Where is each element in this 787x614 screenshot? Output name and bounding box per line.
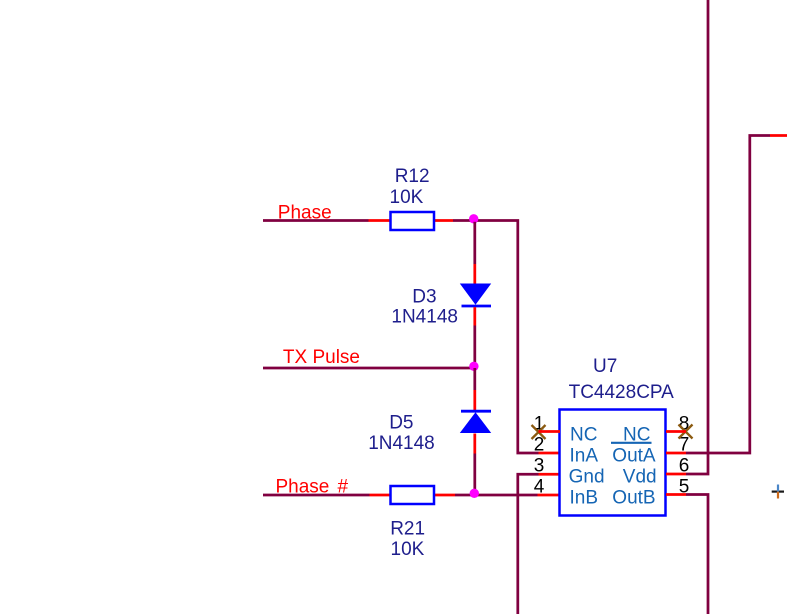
diode D3 cathode bar — [462, 305, 492, 308]
svg-text:D3: D3 — [412, 286, 436, 307]
svg-text:Vdd: Vdd — [623, 467, 657, 488]
svg-text:1N4148: 1N4148 — [391, 306, 458, 327]
svg-text:Gnd: Gnd — [569, 467, 605, 488]
resistor R21 pin 1 (left, red) — [370, 494, 391, 497]
junction node C (Phase #/R21/D5) — [470, 489, 479, 498]
resistor R21 — [391, 486, 435, 504]
svg-text:NC: NC — [570, 425, 597, 446]
resistor R12 pin 2 (right, red) — [434, 219, 453, 222]
svg-text:InA: InA — [570, 446, 599, 467]
svg-text:4: 4 — [534, 477, 545, 498]
svg-text:TC4428CPA: TC4428CPA — [569, 382, 675, 403]
U7 pin 3 stub (red) — [539, 473, 561, 476]
svg-text:OutB: OutB — [612, 488, 655, 509]
plus polarity mark vertical stroke (blue top) — [777, 485, 779, 492]
wire node A down to D3 anode — [473, 222, 476, 264]
off-page pin stub at top right (red) — [770, 134, 787, 137]
diode D5 triangle — [460, 412, 491, 433]
U7 pin 1 stub (red) — [539, 430, 561, 433]
junction node B (TX Pulse/D3/D5) — [469, 362, 478, 371]
op-amp driver U7 body — [560, 410, 666, 516]
wire U7 pin 6 Vdd up to top edge — [686, 0, 708, 474]
U7 pin 8 stub (red) — [666, 430, 686, 433]
plus polarity mark horizontal stroke — [772, 491, 784, 493]
diode D5 cathode bar — [461, 410, 491, 413]
wire U7 pin 7 OutA right and up to top-right — [686, 136, 770, 454]
svg-text:D5: D5 — [389, 412, 413, 433]
wire U7 pin 5 OutB right and down to bottom edge — [686, 495, 708, 614]
resistor R21 pin 2 (right, red) — [434, 494, 455, 497]
svg-text:3: 3 — [534, 456, 545, 477]
diode D5 anode pin (red) — [473, 434, 476, 454]
diode D5 cathode pin (red) — [473, 390, 476, 410]
svg-text:10K: 10K — [390, 187, 424, 208]
wire R21 to node C to U7 pin 4 — [455, 494, 538, 497]
resistor R12 pin 1 (left, red) — [369, 219, 391, 222]
wire D3 cathode down to TX Pulse net — [473, 326, 476, 369]
diode D3 cathode pin (red) — [473, 307, 476, 325]
U7 pin 6 stub (red) — [666, 473, 686, 476]
svg-text:R21: R21 — [390, 519, 425, 540]
svg-text:InB: InB — [570, 488, 599, 509]
U7 pin 4 stub (red) — [538, 494, 561, 497]
diode D3 anode pin (red) — [473, 264, 476, 284]
wire Phase # net horizontal — [263, 494, 370, 497]
junction node A (Phase/R12/D3) — [469, 214, 478, 223]
plus polarity mark vertical stroke (orange bottom) — [777, 492, 779, 499]
no-connect X on U7 pin 1 — [532, 425, 546, 439]
svg-text:1N4148: 1N4148 — [368, 433, 435, 454]
U7 pin 5 stub (red) — [666, 493, 686, 496]
U7 pin 8 NC underline — [611, 442, 652, 444]
wire TX Pulse net horizontal — [263, 367, 476, 370]
wire Phase net horizontal — [263, 219, 369, 222]
U7 pin 7 stub (red) — [666, 452, 686, 455]
wire D5 anode down to Phase # net — [473, 454, 476, 496]
wire from R12 to node A and down to U7 pin 2 — [453, 221, 539, 454]
U7 pin 2 stub (red) — [539, 452, 561, 455]
wire node B down to D5 cathode — [473, 368, 476, 390]
wire U7 pin 3 Gnd going left then down off-page — [518, 474, 539, 614]
diode D3 triangle — [460, 284, 491, 305]
svg-text:TX Pulse: TX Pulse — [283, 347, 360, 368]
svg-text:U7: U7 — [593, 356, 617, 377]
resistor R12 — [391, 212, 435, 230]
svg-text:OutA: OutA — [612, 446, 656, 467]
svg-text:10K: 10K — [391, 539, 425, 560]
svg-text:R12: R12 — [395, 166, 430, 187]
no-connect X on U7 pin 8 — [679, 425, 693, 439]
